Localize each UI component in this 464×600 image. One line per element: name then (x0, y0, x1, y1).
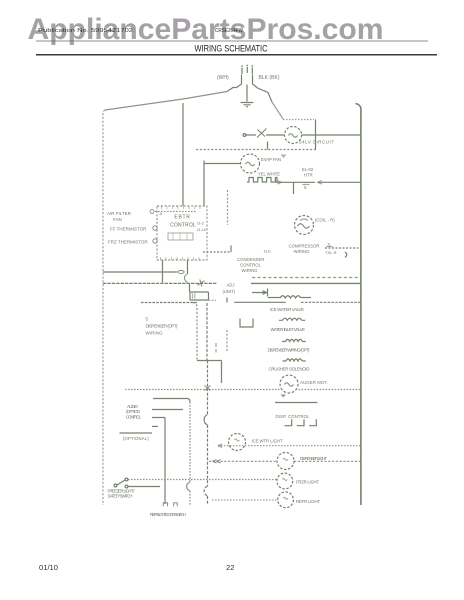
short dash (152, 425, 158, 427)
svg-text:FF THERMISTOR: FF THERMISTOR (110, 227, 147, 232)
svg-text:24LV CIRCUIT: 24LV CIRCUIT (299, 140, 334, 145)
control board bottom pins (161, 257, 200, 260)
svg-text:S: S (328, 242, 331, 247)
plug body right wire (253, 75, 273, 103)
refr door switch contacts (163, 503, 177, 507)
svg-text:(COIL - R): (COIL - R) (315, 218, 335, 223)
wire board pin to bus right (187, 260, 189, 274)
right border wire (356, 104, 361, 506)
dashed stub right of def box (209, 299, 217, 301)
connector bump b (204, 415, 207, 426)
svg-text:22: 22 (226, 563, 234, 572)
control board top pins (162, 207, 201, 210)
svg-text:FAN: FAN (113, 217, 122, 222)
wire plug to left border (105, 92, 227, 111)
audio board wire 1 (152, 409, 183, 411)
connector arrows on heater line (278, 181, 323, 185)
vertical x165 (164, 418, 166, 505)
svg-text:(OPTION: (OPTION (126, 409, 140, 414)
svg-text:CONTROL: CONTROL (170, 223, 196, 229)
wire switch to fan (266, 134, 285, 136)
dashed vertical x197 (193, 303, 197, 361)
ground symbol (241, 85, 254, 107)
plug prong right (251, 68, 253, 75)
connector bump c (204, 486, 207, 505)
dotted bus y389.5 left (125, 389, 280, 391)
control board inner connector block (168, 233, 193, 240)
audio option box right edge (189, 402, 191, 482)
svg-text:(UNIT): (UNIT) (223, 289, 236, 294)
defrost solenoid lead (189, 284, 191, 293)
wire fan to right border (302, 134, 362, 136)
defrost termination switch on bus (198, 280, 205, 287)
wire right prong branch down (272, 102, 283, 119)
dispenser light wire dashed (209, 460, 277, 462)
ice water dispenser light (229, 434, 246, 451)
main bus y282.5 left segment (103, 282, 217, 284)
ice water light wire dotted (218, 445, 361, 447)
dashed wire compressor control (203, 251, 231, 253)
connector on pin wire (185, 274, 188, 283)
freezer light wire dotted (128, 479, 277, 481)
evap fan motor (241, 154, 260, 173)
svg-text:HTR: HTR (304, 173, 313, 178)
corner tick x227 (226, 298, 228, 303)
wire board pin to bus left (162, 260, 164, 283)
svg-text:WIRING SCHEMATIC: WIRING SCHEMATIC (195, 44, 268, 54)
svg-text:TXL-R: TXL-R (325, 250, 337, 255)
connector pair on y272 wire (178, 270, 185, 273)
wire heater line to right border (318, 181, 361, 183)
dispenser switch contacts (285, 419, 317, 425)
evap fan circuit motor (285, 127, 302, 144)
svg-text:(WH): (WH) (217, 75, 229, 81)
svg-text:J1-10: J1-10 (197, 228, 207, 232)
svg-text:WATER INLET VALVE: WATER INLET VALVE (271, 327, 306, 332)
wire horizontal y272 (103, 271, 177, 273)
connector bump on x190 (187, 482, 190, 491)
dashed vertical x227 upper (227, 190, 229, 225)
connector U symbol (240, 319, 253, 328)
arrow wire y292.5 (252, 289, 268, 297)
leader air filter fan (155, 211, 196, 213)
wire evap fan motor feed (204, 161, 240, 207)
freezer safety switch terminals (114, 484, 117, 487)
compressor motor (295, 216, 314, 235)
svg-text:EBTR: EBTR (174, 215, 190, 221)
svg-text:ADJ: ADJ (227, 283, 235, 288)
svg-text:CRUSHER SOLENOID: CRUSHER SOLENOID (269, 367, 310, 372)
refrigerator light (278, 492, 294, 508)
bus y302.5 (141, 302, 197, 304)
svg-text:DISPENSER WIRING (OPT): DISPENSER WIRING (OPT) (268, 348, 311, 353)
x190 tail (189, 491, 191, 506)
dashed relay wire to border (325, 247, 361, 249)
water valve coil 4 (283, 359, 306, 361)
svg-text:AUGER MOT.: AUGER MOT. (300, 380, 328, 385)
wire vertical x316 (315, 120, 317, 150)
dashed vertical x227 lower (226, 330, 228, 352)
main bus y282.5 right segment (251, 282, 361, 284)
svg-text:WIRING: WIRING (146, 331, 164, 336)
svg-text:FRZ THERMISTOR: FRZ THERMISTOR (108, 240, 148, 245)
svg-text:(OPTIONAL): (OPTIONAL) (123, 436, 150, 441)
svg-text:WIRING: WIRING (294, 249, 311, 254)
refr light wire dotted (212, 499, 277, 501)
svg-text:REFR. LIGHT DOOR SWITCH: REFR. LIGHT DOOR SWITCH (150, 512, 186, 517)
svg-text:BLK (BK): BLK (BK) (259, 75, 280, 81)
svg-text:CONTROL: CONTROL (240, 263, 262, 268)
svg-text:01/10: 01/10 (39, 563, 58, 572)
heater stub with fuse tick (293, 182, 295, 194)
connector dashes x216 (215, 343, 217, 353)
svg-text:EVAP FAN: EVAP FAN (261, 157, 281, 162)
plug prong center (246, 67, 248, 73)
svg-text:11G: 11G (264, 249, 271, 254)
wire vertical x207.5 upper (206, 303, 208, 361)
marker triangle under auger (281, 395, 287, 398)
wire vertical x207.5 (207, 361, 209, 415)
svg-text:ICE WATER VALVE: ICE WATER VALVE (270, 307, 304, 312)
water valve coil 1 (280, 296, 301, 298)
auger motor (280, 375, 298, 393)
optional wire (120, 432, 153, 434)
wire node to control board (vertical x183) (182, 103, 184, 206)
FRZ thermistor symbol (153, 239, 157, 243)
wire tick x267 (267, 142, 269, 150)
left border wire (103, 110, 105, 505)
audio board wire 2 (152, 417, 165, 419)
svg-text:REFR LIGHT: REFR LIGHT (296, 499, 320, 504)
freezer light (277, 473, 293, 489)
connector arc (345, 252, 347, 258)
svg-text:YEL WHITE: YEL WHITE (258, 172, 280, 177)
svg-text:AIR FILTER: AIR FILTER (107, 211, 132, 216)
switch blade (117, 480, 125, 485)
plug body left wire (227, 75, 242, 92)
svg-text:WIRING: WIRING (242, 268, 259, 273)
vertical x207.5 lower (207, 425, 209, 486)
wire vertical x221.5 (221, 361, 223, 384)
svg-text:DISP. CONTROL: DISP. CONTROL (276, 414, 311, 419)
evap fan switch terminal (243, 134, 246, 137)
svg-text:CONTROL: CONTROL (126, 414, 142, 419)
dispenser control wire y404 (275, 402, 318, 404)
svg-text:CRSE264FW: CRSE264FW (215, 28, 244, 34)
dotted bus y389.5 right (299, 389, 362, 391)
FF thermistor symbol (153, 226, 157, 230)
water valve coil 2 (279, 318, 305, 320)
cold control switch (257, 129, 267, 138)
tick on compressor wire (230, 246, 232, 253)
EBTR control board box (157, 206, 207, 260)
svg-text:EL-02: EL-02 (302, 167, 314, 172)
svg-text:DISPENSER LIGHT: DISPENSER LIGHT (300, 456, 327, 461)
header rule (36, 54, 437, 56)
wire lead to valve coil (268, 297, 280, 299)
audio option box top (153, 399, 190, 403)
water valve coil 3 (282, 339, 306, 341)
svg-text:SAFETY SWITCH: SAFETY SWITCH (108, 494, 133, 499)
wire heater to connector (276, 181, 315, 183)
plug prong left (241, 68, 243, 75)
junction ticks auger bus (205, 386, 211, 391)
dashed bus y277.5 (252, 277, 361, 279)
defrost heater element (247, 178, 277, 183)
marker triangle under dashed line (281, 155, 287, 159)
wire to cold control switch (246, 134, 256, 136)
dispenser light (277, 453, 294, 470)
svg-text:FRZR LIGHT: FRZR LIGHT (296, 480, 319, 485)
svg-text:CONDENSER: CONDENSER (237, 257, 264, 262)
svg-text:J1-2: J1-2 (197, 222, 204, 226)
wire jog y360.5 (197, 360, 222, 362)
wire dotted to x316 (283, 119, 314, 121)
coil 1 right lead (301, 297, 311, 299)
air filter fan terminal (150, 210, 154, 214)
svg-text:DISPENSER (OPT): DISPENSER (OPT) (146, 324, 179, 329)
svg-text:Publication No. 5995421702: Publication No. 5995421702 (38, 28, 133, 34)
svg-text:ICE WTR LIGHT: ICE WTR LIGHT (252, 439, 283, 444)
defrost solenoid box (190, 292, 209, 300)
thin header rule (36, 40, 428, 42)
dashed circuit line y149.5 (196, 149, 316, 151)
svg-text:COMPRESSOR: COMPRESSOR (289, 244, 320, 249)
switch lower wire (128, 486, 160, 488)
